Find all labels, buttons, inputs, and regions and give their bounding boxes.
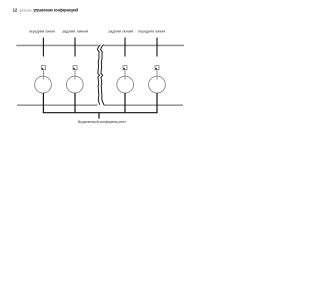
svg-text:12: 12 xyxy=(13,7,18,12)
telephone T4 hook square xyxy=(155,66,159,70)
telephone T2 hook square xyxy=(73,66,77,70)
wire bottom bus right segment xyxy=(104,104,184,106)
tick line drop 1 xyxy=(42,38,44,57)
svg-text:скенировка: скенировка xyxy=(19,7,33,12)
tick line drop 4 xyxy=(156,38,158,57)
svg-text:Выделенный конференц-мост: Выделенный конференц-мост xyxy=(78,120,126,124)
wire top bus left segment xyxy=(16,44,98,46)
telephone T4 connector xyxy=(156,70,158,79)
break squiggle left stroke xyxy=(98,45,101,105)
svg-text:задняя линия: задняя линия xyxy=(62,29,88,33)
svg-text:задняя линия: задняя линия xyxy=(108,29,133,33)
telephone T3 hook square xyxy=(123,66,127,70)
telephone T3 connector xyxy=(124,70,126,79)
telephone T1 stem xyxy=(42,93,44,113)
telephone T2 connector xyxy=(74,70,76,79)
telephone T3 dial circle xyxy=(117,76,134,93)
telephone T4 dial circle xyxy=(149,76,166,93)
telephone T1 hook square xyxy=(41,66,45,70)
break squiggle right stroke xyxy=(101,45,104,105)
telephone T4 stem xyxy=(156,93,158,113)
tick line drop 2 xyxy=(74,38,76,57)
wire top bus right segment xyxy=(103,44,184,46)
telephone T1 dial circle xyxy=(35,76,52,93)
telephone T1 connector xyxy=(42,70,44,79)
wire bottom bus left segment xyxy=(17,104,98,106)
svg-text:передняя линия: передняя линия xyxy=(138,29,165,33)
telephone T2 dial circle xyxy=(66,76,83,93)
svg-text:передняя линия: передняя линия xyxy=(29,29,55,33)
tick line drop 3 xyxy=(124,38,126,57)
wire collector bottom xyxy=(43,112,158,114)
svg-text:управление конференцией: управление конференцией xyxy=(33,6,78,12)
wire label leader xyxy=(98,113,100,119)
telephone T3 stem xyxy=(124,93,126,113)
telephone T2 stem xyxy=(74,93,76,113)
